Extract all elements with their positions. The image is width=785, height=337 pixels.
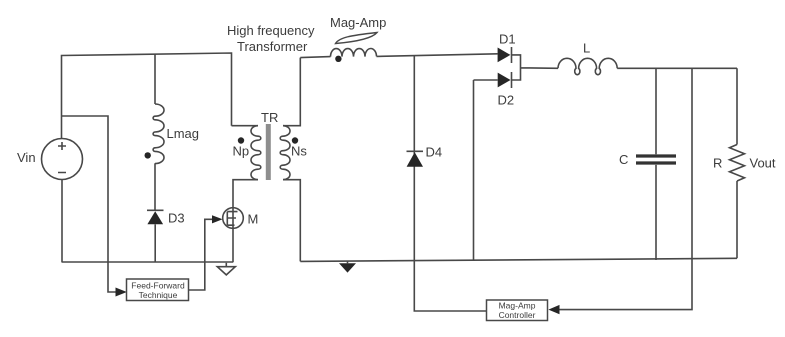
arrowhead into controller xyxy=(548,305,559,314)
svg-text:D1: D1 xyxy=(499,32,516,47)
svg-text:D2: D2 xyxy=(498,93,515,108)
wire mag-amp line left xyxy=(300,57,330,58)
svg-text:Transformer: Transformer xyxy=(237,39,308,54)
svg-text:C: C xyxy=(619,152,628,167)
voltage source Vin xyxy=(42,139,83,180)
wire cathode join xyxy=(512,55,559,80)
wire Vout sense to controller xyxy=(560,68,693,309)
svg-text:Lmag: Lmag xyxy=(167,126,200,141)
svg-text:Vin: Vin xyxy=(17,150,36,165)
svg-text:D4: D4 xyxy=(426,145,443,160)
wire Ns bottom xyxy=(283,180,300,262)
dot Lmag xyxy=(145,152,151,158)
transistor M xyxy=(223,208,244,229)
wire mag-amp line right to D1 xyxy=(377,54,498,57)
box Feed-Forward Technique xyxy=(127,279,189,301)
wire R branch xyxy=(736,68,738,258)
box Mag-Amp Controller xyxy=(487,300,548,321)
wire Np top xyxy=(232,125,259,127)
dot secondary xyxy=(292,137,298,143)
wire Vin bottom to rail xyxy=(61,180,63,263)
svg-text:Ns: Ns xyxy=(291,144,307,159)
wire top rail with left vertical and Np drop xyxy=(62,53,232,139)
wire Np bottom to switch xyxy=(233,180,258,208)
dot primary xyxy=(238,137,244,143)
svg-text:Controller: Controller xyxy=(499,310,536,320)
svg-text:Mag-Amp: Mag-Amp xyxy=(330,15,386,30)
resistor R xyxy=(730,145,745,182)
wire output top xyxy=(617,67,737,69)
wire D2 anode drop xyxy=(473,80,475,260)
ground primary xyxy=(217,263,235,275)
dot mag-amp xyxy=(335,56,341,62)
wire C branch xyxy=(655,68,657,260)
transformer core xyxy=(266,124,271,180)
wire D4 branch and controller output xyxy=(414,55,486,311)
wire bottom rail secondary xyxy=(300,258,737,261)
inductor Lmag xyxy=(153,104,164,164)
arrowhead into M xyxy=(212,215,223,223)
svg-text:Technique: Technique xyxy=(139,290,178,300)
svg-text:High frequency: High frequency xyxy=(227,23,315,38)
wire D2 anode xyxy=(474,79,498,81)
diode D2 xyxy=(498,72,512,88)
svg-text:TR: TR xyxy=(261,110,278,125)
wire M source to rail xyxy=(232,228,234,262)
svg-text:M: M xyxy=(248,212,259,227)
wire Lmag to D3 xyxy=(154,163,156,210)
svg-text:D3: D3 xyxy=(168,211,185,226)
ground secondary xyxy=(339,261,356,273)
transformer secondary winding Ns xyxy=(280,126,290,180)
svg-text:Vout: Vout xyxy=(750,156,776,171)
transformer primary winding Np xyxy=(251,126,261,180)
diode D4 xyxy=(407,151,424,167)
wire gate drive from feed-forward xyxy=(189,219,213,290)
wire feed-forward sense line xyxy=(62,116,118,292)
wire bottom rail primary xyxy=(62,261,234,263)
diode D3 xyxy=(147,210,164,224)
wire D3 to rail xyxy=(154,224,156,262)
svg-text:Feed-Forward: Feed-Forward xyxy=(131,281,185,291)
svg-text:Np: Np xyxy=(233,144,250,159)
svg-text:L: L xyxy=(583,41,590,56)
inductor L xyxy=(558,58,617,74)
wire Lmag top drop xyxy=(154,54,156,104)
svg-text:R: R xyxy=(713,156,722,171)
wire Ns top xyxy=(283,58,300,126)
diode D1 xyxy=(498,47,512,63)
mag-amp saturable inductor xyxy=(331,33,378,57)
arrowhead into feed-forward box xyxy=(116,288,127,297)
capacitor C xyxy=(636,156,676,163)
